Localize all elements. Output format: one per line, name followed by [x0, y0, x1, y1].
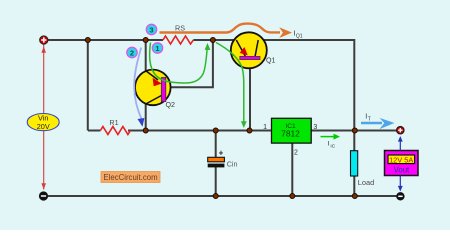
green current line from RS junction down to IC input	[216, 43, 247, 129]
svg-text:1: 1	[155, 44, 159, 53]
wire: Q2 emitter/collector vertical	[145, 40, 147, 131]
svg-text:Q2: Q2	[166, 101, 176, 109]
terminal - output	[397, 193, 404, 200]
junction mid rail F (Q1 base)	[247, 128, 252, 133]
svg-text:3: 3	[313, 124, 317, 131]
svg-text:IC: IC	[330, 144, 335, 150]
transistor Q1	[231, 32, 276, 68]
junction top rail B	[143, 38, 148, 43]
resistor R1	[100, 118, 130, 135]
svg-text:2: 2	[130, 48, 134, 57]
wire: mid rail right of IC to + output	[311, 130, 396, 132]
svg-text:Q1: Q1	[266, 57, 276, 65]
wire: ground rail	[48, 195, 397, 197]
wire: IC pin2 vertical to ground	[291, 143, 293, 196]
svg-text:Cin: Cin	[227, 160, 238, 169]
wire: top rail left segment	[48, 39, 163, 41]
orange current curve I_Q1 over Q1	[160, 24, 303, 40]
capacitor Cin	[208, 149, 238, 169]
svg-text:+: +	[219, 149, 224, 158]
node badge 2	[127, 47, 137, 57]
junction ground J (Load bottom)	[352, 194, 357, 199]
junction ground I (IC pin2)	[290, 194, 295, 199]
svg-text:7812: 7812	[281, 129, 300, 139]
terminal + output	[397, 127, 404, 134]
wire: top rail right segment after RS, corner down to mid rail	[193, 40, 354, 131]
junction top rail A	[85, 38, 90, 43]
svg-text:Load: Load	[358, 178, 374, 187]
transistor Q2	[135, 70, 175, 109]
wire: Cin vertical	[215, 131, 217, 197]
wire: mid rail left of IC	[88, 130, 272, 132]
junction ground H (Cin)	[213, 194, 218, 199]
svg-text:2: 2	[294, 149, 298, 156]
blue current line left of Q2 down to R1 junction	[134, 48, 144, 127]
IC U1 7812	[272, 118, 312, 143]
wire: left vertical from top rail to R1	[87, 40, 89, 131]
svg-text:Vout: Vout	[394, 166, 410, 175]
Load	[351, 151, 375, 187]
blue arrow I_T	[361, 112, 395, 129]
green arrow I_IC	[321, 134, 341, 150]
watermark ElecCircuit.com	[101, 172, 160, 183]
green current line through Q2 up to RS junction	[150, 43, 211, 84]
junction mid rail G (Load top)	[352, 128, 357, 133]
svg-text:T: T	[368, 117, 371, 123]
svg-text:1: 1	[263, 124, 267, 131]
wire: Q1 base vertical down to mid rail	[249, 60, 251, 131]
source Vin 20V	[27, 45, 59, 190]
svg-text:Q1: Q1	[296, 33, 303, 39]
terminal - input	[39, 192, 47, 200]
svg-text:RS: RS	[175, 24, 185, 33]
svg-text:12V 5A: 12V 5A	[389, 155, 413, 164]
junction mid rail E (Cin)	[213, 128, 218, 133]
node badge 1	[152, 43, 162, 53]
svg-text:ElecCircuit.com: ElecCircuit.com	[103, 173, 157, 182]
resistor RS	[163, 24, 193, 45]
Vout indicator box 12V 5A	[385, 136, 419, 192]
wire: Q2 base horizontal and up to RS junction	[166, 40, 213, 87]
terminal + input	[40, 36, 48, 44]
node badge 3	[146, 24, 156, 34]
junction mid rail D (R1 / Q2 collector)	[143, 128, 148, 133]
wire: Load verticals	[353, 131, 355, 197]
junction top rail C (RS / Q1 emitter / Q2 base)	[210, 38, 215, 43]
svg-text:20V: 20V	[37, 122, 50, 131]
svg-text:3: 3	[149, 25, 153, 34]
svg-text:R1: R1	[109, 118, 118, 127]
